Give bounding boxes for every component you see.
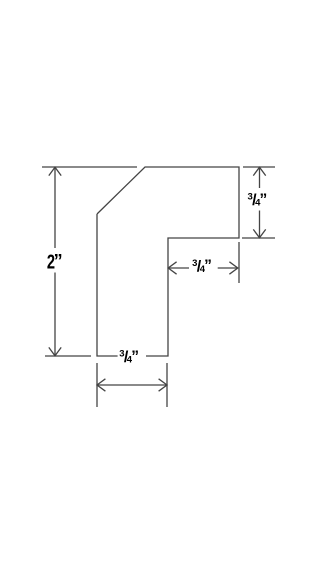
dim 3/4in step arrow right: [229, 262, 237, 274]
dim 3/4in right dimension line: [259, 168, 261, 238]
svg-text:”: ”: [204, 258, 212, 275]
label 3/4 inch right: [248, 191, 268, 209]
label 2 inch: [47, 250, 63, 273]
dim 3/4in step right extension line: [238, 242, 240, 283]
dim 3/4in bottom dimension line: [97, 384, 166, 386]
dim 3/4in bottom right extension line: [166, 363, 168, 407]
profile outline: [97, 167, 239, 356]
dim 3/4in right top extension line: [243, 166, 275, 168]
label 3/4 inch step: [192, 258, 212, 276]
dim 2in dimension line: [54, 168, 56, 356]
dim 2in arrow down: [49, 347, 61, 355]
dim 3/4in bottom arrow left: [97, 379, 105, 391]
svg-text:”: ”: [54, 251, 63, 271]
dim 2in arrow up: [49, 167, 61, 175]
dim 3/4in step dimension line: [169, 267, 238, 269]
dim 3/4in bottom left extension line: [96, 363, 98, 407]
dim 3/4in bottom arrow right: [159, 379, 167, 391]
dim 3/4in step arrow left: [168, 262, 176, 274]
dim 3/4in right arrow down: [253, 229, 265, 237]
dim 3/4in right bottom extension line: [242, 237, 275, 239]
label 3/4 inch bottom: [119, 348, 139, 366]
svg-text:”: ”: [260, 191, 268, 208]
dim 2in top extension line: [42, 166, 137, 168]
dim 2in bottom extension line: [45, 355, 91, 357]
dim 3/4in right arrow up: [253, 167, 265, 175]
svg-text:”: ”: [131, 348, 139, 365]
